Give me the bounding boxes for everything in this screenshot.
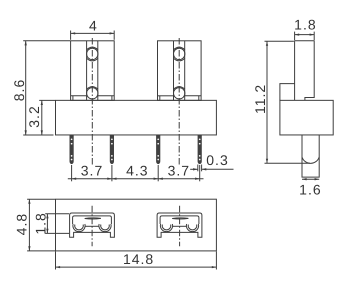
svg-text:14.8: 14.8: [123, 251, 154, 267]
dim 11.2 extension bottom: [265, 162, 310, 164]
arrow dim11.2 top: [266, 41, 268, 46]
tab 2 arc above top circle: [174, 47, 185, 50]
side view base block: [280, 100, 333, 135]
arrow dim11.2 bottom: [266, 159, 268, 164]
dim 4.8 line: [28, 199, 30, 251]
dim 1.6 line: [302, 178, 319, 180]
tab 1 arc above bottom circle: [87, 87, 98, 90]
tab 2 top dimple circle: [174, 48, 185, 59]
svg-text:3.7: 3.7: [81, 163, 103, 179]
dim 11.2 line: [266, 41, 268, 163]
arrow dim3.2 bottom: [41, 130, 43, 135]
bottom view slot 2 right lobe: [186, 224, 198, 232]
pin 1 dotted centerline gaps: [71, 138, 73, 140]
pin 2 extension: [111, 165, 113, 181]
dim 1.8 slot extension bottom: [45, 232, 69, 234]
dim 1.8 slot line: [46, 214, 48, 234]
dim 14.8 line: [56, 266, 217, 268]
arrow dim14.8 left: [56, 266, 61, 268]
pin 2: [110, 135, 114, 164]
dim 14.8 extension right: [215, 252, 217, 270]
front view tab 2 outline: [158, 41, 202, 101]
dim 1.8 top line: [295, 34, 315, 36]
arrow chain p2 left: [107, 178, 112, 180]
dim 3.2 extension top: [39, 99, 55, 101]
dim 8.6 extension top: [23, 40, 70, 42]
pin 4: [198, 135, 202, 164]
bottom view slot 1 right lobe: [99, 224, 111, 232]
arrow dim4 right: [110, 32, 115, 34]
side view shoulder: [280, 84, 295, 101]
tab 2 foot tick right: [198, 96, 200, 101]
arrow dim8.6 bottom: [25, 130, 27, 135]
bottom view slot 2 lens sliver: [172, 218, 188, 219]
tab 1 bottom shoulder line right: [98, 95, 114, 97]
arrow dim1.8 slot top: [46, 214, 48, 219]
dim 8.6/3.2 extension bottom: [23, 134, 53, 136]
bottom view slot 1 lens sliver: [85, 218, 101, 219]
tab 1 foot tick left: [72, 96, 74, 101]
dim 1.8 top extension right: [313, 32, 315, 40]
dim 4 extension left: [70, 31, 72, 40]
svg-text:11.2: 11.2: [252, 84, 268, 114]
tab 2 bottom shoulder line right: [185, 95, 201, 97]
arrow dim0.3 left: [193, 168, 198, 170]
side view pin outline: [302, 135, 319, 177]
bottom view slot 1 left lobe: [73, 224, 85, 232]
arrow chain p3 right: [158, 178, 163, 180]
arrow chain p4 left: [195, 178, 200, 180]
tab 2 centerline: [178, 38, 180, 166]
svg-text:1.6: 1.6: [299, 181, 321, 197]
dim 1.8 slot extension top: [45, 213, 69, 215]
side view pin tip arc: [302, 157, 319, 163]
arrow dim0.3 right: [202, 168, 207, 170]
svg-text:4.3: 4.3: [126, 163, 148, 179]
svg-text:1.8: 1.8: [32, 212, 48, 234]
pin 1 extension: [71, 165, 73, 181]
dim 4.8 extension bottom: [27, 250, 55, 252]
arrow chain p2 right: [112, 178, 117, 180]
bottom view slot 2 outer contour: [157, 213, 202, 237]
pin 1: [70, 135, 74, 164]
tab 2 arc below top circle: [174, 58, 185, 61]
tab 1 centerline: [91, 38, 93, 166]
tab 1 bottom shoulder line left: [71, 95, 87, 97]
bottom view slot 1 inner band: [73, 216, 112, 224]
arrowheads: [25, 32, 320, 268]
dim 3.2 line: [41, 100, 43, 135]
bottom view slot 1 centerline: [91, 206, 93, 247]
front view pins (filled): [70, 135, 202, 164]
tab 1 slot line left: [86, 41, 88, 101]
tab 1 foot tick right: [111, 96, 113, 101]
tab 1 arc below top circle: [87, 58, 98, 61]
dim 0.3 extension right: [201, 165, 203, 172]
arrow chain p3 left: [154, 178, 159, 180]
bottom view slot 1 bridge line: [85, 225, 98, 227]
arrow dim1.6 left: [302, 178, 307, 180]
tab 2 foot tick left: [159, 96, 161, 101]
dim 0.3 leader left: [190, 168, 198, 170]
arrow dim4.8 bottom: [28, 246, 30, 251]
dim 1.8 top extension left: [294, 32, 296, 40]
arrow dim1.8 top right: [310, 33, 315, 35]
bottom view outer rect: [56, 199, 217, 251]
dim 0.3 extension left: [197, 165, 199, 172]
side view tab outline: [295, 41, 315, 101]
svg-text:4: 4: [89, 17, 98, 33]
tab 2 bottom dimple circle: [174, 88, 185, 99]
arrow dim14.8 right: [212, 266, 217, 268]
pin 4 dotted centerline gaps: [199, 138, 201, 140]
bottom view slot 2 bridge line: [173, 225, 186, 227]
arrow chain p1 right: [72, 178, 77, 180]
svg-text:3.7: 3.7: [168, 163, 190, 179]
svg-text:1.8: 1.8: [294, 17, 316, 33]
bottom view slot 2 centerline: [179, 206, 181, 247]
bottom view slot 1 outer contour: [70, 213, 115, 237]
dim 8.6 line: [25, 41, 27, 135]
tab 1 top dimple circle: [87, 48, 98, 59]
dimension texts: [11, 17, 322, 267]
arrow dim1.6 right: [315, 178, 320, 180]
tab 2 arc above bottom circle: [174, 87, 185, 90]
dim 14.8 extension left: [55, 252, 57, 270]
svg-text:8.6: 8.6: [11, 79, 27, 101]
pin 3: [156, 135, 160, 164]
front view tab 1 outline: [71, 41, 115, 101]
tab 1 bottom dimple circle: [87, 88, 98, 99]
svg-text:4.8: 4.8: [13, 213, 29, 235]
tab 1 slot line right: [97, 41, 99, 101]
arrow dim1.8 top left: [295, 33, 300, 35]
tab 2 slot line left: [173, 41, 175, 101]
pin 4 extension: [199, 165, 201, 181]
dim 4 extension right: [113, 31, 115, 40]
bottom view slot 2 left lobe: [160, 224, 172, 232]
tab 2 slot line right: [184, 41, 186, 101]
svg-text:3.2: 3.2: [26, 105, 42, 127]
arrow dim1.8 slot bottom: [46, 229, 48, 234]
dim 0.3 leader right: [202, 168, 234, 170]
dim 4.8 extension top: [27, 198, 55, 200]
tab 1 arc above top circle: [87, 47, 98, 50]
bottom view slot 2 inner band: [160, 216, 199, 224]
arrow dim8.6 top: [25, 41, 27, 46]
arrow dim4.8 top: [28, 199, 30, 204]
dim 11.2 extension top: [265, 40, 294, 42]
arrow dim3.2 top: [41, 100, 43, 105]
front view base block: [56, 100, 217, 135]
pin 2 dotted centerline gaps: [111, 138, 113, 140]
arrow dim4 left: [71, 32, 76, 34]
pin 3 dotted centerline gaps: [157, 138, 159, 140]
dim 4 line: [71, 32, 115, 34]
tab 2 bottom shoulder line left: [158, 95, 174, 97]
bottom chain dim line: [68, 178, 204, 180]
pin 3 extension: [157, 165, 159, 181]
svg-text:0.3: 0.3: [206, 152, 228, 168]
